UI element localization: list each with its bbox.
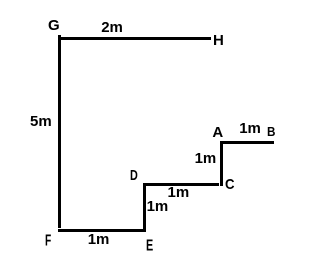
wire segment G-H (top horizontal, 2m) [58, 37, 211, 40]
wire segment F-E (bottom horizontal, 1m) [58, 229, 146, 232]
node label C [225, 177, 235, 192]
dimension label 5m (segment G-F) [30, 114, 52, 129]
node label E [146, 238, 153, 254]
dimension label 1m (segment A-B) [239, 121, 261, 136]
dimension label 1m (segment E-D) [147, 199, 169, 214]
wire segment G-F (left vertical, 5m) [58, 35, 61, 228]
wire segment A-B (horizontal, 1m) [221, 141, 274, 144]
dimension label 2m (segment G-H) [101, 20, 123, 35]
node label H [213, 33, 224, 48]
wire segment D-C (horizontal tread, 1m) [143, 183, 219, 186]
wire segment C-A (vertical riser, 1m) [220, 141, 223, 186]
dimension label 1m (segment F-E) [88, 232, 110, 247]
dimension label 1m (segment C-A) [195, 151, 217, 166]
wire segment E-D (vertical riser, 1m) [143, 183, 146, 232]
node label G [48, 18, 60, 33]
node label F [45, 233, 51, 249]
dimension label 1m (segment D-C) [168, 185, 190, 200]
node label B [267, 126, 275, 139]
node label A [212, 125, 223, 140]
node label D [130, 168, 138, 183]
